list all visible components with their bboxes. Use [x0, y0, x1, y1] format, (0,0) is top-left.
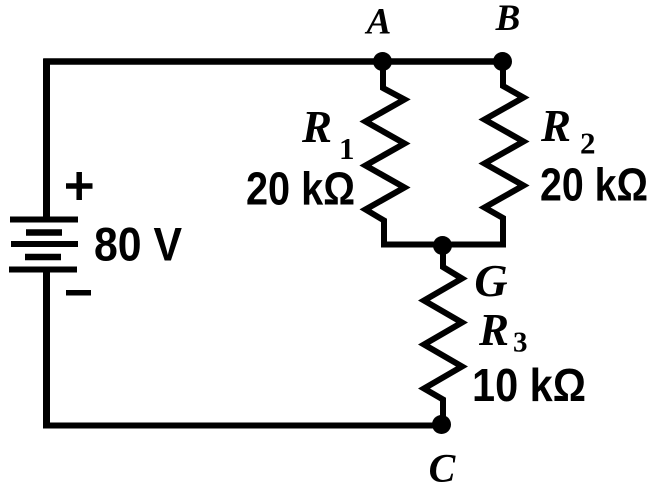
svg-text:B: B — [495, 0, 521, 39]
resistor R1 (zigzag with leads, node A to junction wire) — [366, 62, 405, 248]
battery value label 80 V — [94, 218, 183, 271]
R3 reference label — [478, 305, 528, 359]
node B (junction dot) — [493, 52, 512, 71]
svg-text:A: A — [365, 2, 392, 43]
svg-text:R: R — [301, 102, 332, 152]
svg-text:2: 2 — [580, 126, 596, 161]
svg-text:20 kΩ: 20 kΩ — [540, 159, 648, 211]
wire: left vertical upper (top corner down to battery + plate) — [43, 59, 50, 222]
node G label — [474, 255, 507, 306]
svg-text:R: R — [478, 305, 509, 355]
resistor R2 (zigzag with leads, node B to junction wire) — [485, 62, 524, 248]
battery minus terminal label — [66, 290, 91, 296]
R2 reference label — [540, 101, 596, 161]
svg-text:20 kΩ: 20 kΩ — [246, 163, 355, 215]
svg-text:C: C — [429, 446, 457, 491]
node B label — [495, 0, 521, 39]
wire: left vertical lower (battery - plate down to bottom corner) — [43, 268, 50, 429]
resistor R3 (zigzag with leads, node G to node C) — [424, 246, 462, 426]
wire: top horizontal from left corner to node B — [44, 58, 506, 65]
R2 value label 20 kOhm — [540, 159, 648, 211]
node G (junction dot) — [433, 236, 452, 255]
node C (junction dot) — [432, 415, 451, 434]
R3 value label 10 kOhm — [472, 359, 586, 411]
node A label — [365, 2, 392, 43]
battery plus terminal label — [66, 172, 93, 200]
node C label — [429, 446, 457, 491]
svg-text:G: G — [474, 255, 507, 306]
svg-text:R: R — [540, 101, 571, 151]
svg-text:3: 3 — [513, 327, 528, 359]
svg-text:10 kΩ: 10 kΩ — [472, 359, 586, 411]
R1 reference label — [301, 102, 355, 166]
battery BT1 (80 V, multicell) — [9, 220, 78, 270]
node A (junction dot) — [373, 52, 392, 71]
svg-text:1: 1 — [339, 131, 355, 166]
wire: bottom horizontal from left corner to node C — [44, 423, 446, 429]
wire: junction horizontal joining R1 and R2 bottoms — [381, 242, 506, 248]
R1 value label 20 kOhm — [246, 163, 355, 215]
svg-text:80 V: 80 V — [94, 218, 183, 271]
